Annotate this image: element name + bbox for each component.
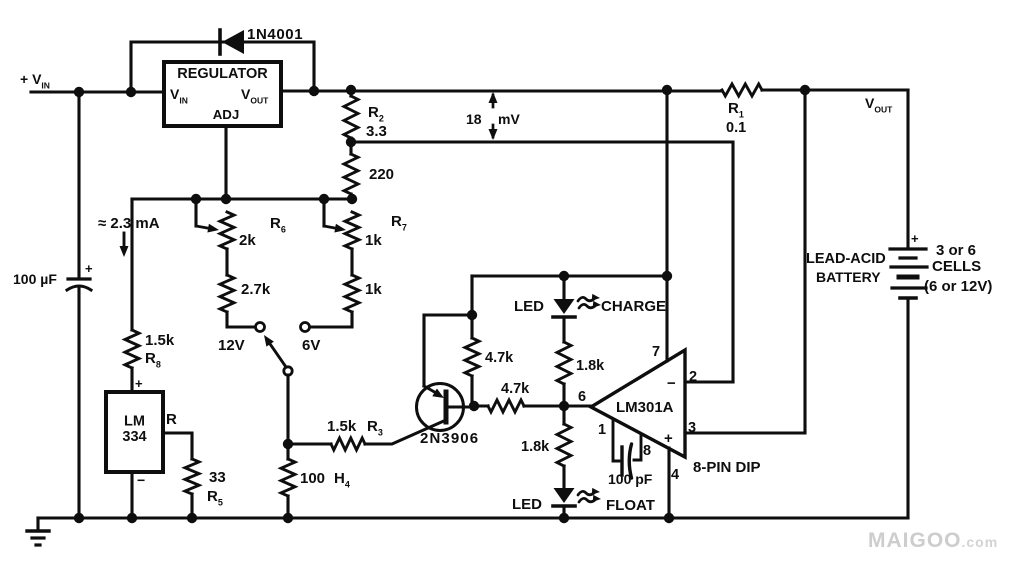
svg-text:MAIGOO.com: MAIGOO.com xyxy=(868,529,998,552)
svg-text:R3: R3 xyxy=(367,418,383,438)
svg-text:+ VIN: + VIN xyxy=(20,71,50,91)
svg-text:R6: R6 xyxy=(270,215,286,235)
svg-text:LM301A: LM301A xyxy=(616,399,674,416)
svg-text:1k: 1k xyxy=(365,281,382,298)
svg-text:1.8k: 1.8k xyxy=(576,358,605,374)
svg-text:1.8k: 1.8k xyxy=(521,439,550,455)
svg-text:100 pF: 100 pF xyxy=(608,471,653,487)
svg-text:LED: LED xyxy=(514,298,544,315)
svg-text:2k: 2k xyxy=(239,232,256,249)
svg-text:REGULATOR: REGULATOR xyxy=(177,66,268,82)
svg-text:4.7k: 4.7k xyxy=(501,381,530,397)
svg-text:CHARGE: CHARGE xyxy=(601,298,666,315)
svg-text:R1: R1 xyxy=(728,100,744,120)
svg-text:6: 6 xyxy=(578,389,586,405)
svg-text:+: + xyxy=(85,261,93,276)
svg-text:+: + xyxy=(664,430,673,447)
svg-text:12V: 12V xyxy=(218,337,245,354)
svg-text:mV: mV xyxy=(498,111,520,127)
svg-text:R7: R7 xyxy=(391,213,407,233)
svg-text:−: − xyxy=(137,472,145,488)
svg-text:R5: R5 xyxy=(207,488,223,508)
svg-text:LM: LM xyxy=(124,414,145,430)
svg-text:R8: R8 xyxy=(145,350,161,370)
svg-text:1N4001: 1N4001 xyxy=(247,26,303,43)
svg-text:1k: 1k xyxy=(365,232,382,249)
svg-text:2: 2 xyxy=(689,369,697,385)
svg-text:R2: R2 xyxy=(368,104,384,124)
svg-text:VOUT: VOUT xyxy=(865,95,893,115)
svg-text:100 µF: 100 µF xyxy=(13,271,57,287)
svg-text:100: 100 xyxy=(300,470,325,487)
svg-text:334: 334 xyxy=(122,429,146,445)
svg-text:H4: H4 xyxy=(334,470,350,490)
svg-text:1.5k: 1.5k xyxy=(145,332,175,349)
svg-text:FLOAT: FLOAT xyxy=(606,497,655,514)
svg-text:7: 7 xyxy=(652,344,660,360)
svg-text:6V: 6V xyxy=(302,337,320,354)
svg-text:8-PIN DIP: 8-PIN DIP xyxy=(693,459,761,476)
svg-text:33: 33 xyxy=(209,469,226,486)
svg-text:4.7k: 4.7k xyxy=(485,350,514,366)
svg-text:220: 220 xyxy=(369,166,394,183)
svg-text:CELLS: CELLS xyxy=(932,258,981,275)
svg-text:(6 or 12V): (6 or 12V) xyxy=(924,278,992,295)
svg-text:−: − xyxy=(667,375,676,392)
svg-text:BATTERY: BATTERY xyxy=(816,269,881,285)
svg-text:3 or 6: 3 or 6 xyxy=(936,242,976,259)
svg-text:ADJ: ADJ xyxy=(213,107,240,122)
svg-text:R: R xyxy=(166,411,177,428)
svg-text:4: 4 xyxy=(671,467,679,483)
svg-text:2.7k: 2.7k xyxy=(241,281,271,298)
svg-text:18: 18 xyxy=(466,111,482,127)
svg-text:0.1: 0.1 xyxy=(726,120,746,136)
svg-text:1.5k: 1.5k xyxy=(327,418,357,435)
svg-text:LEAD-ACID: LEAD-ACID xyxy=(806,251,886,267)
svg-text:8: 8 xyxy=(643,443,651,459)
svg-text:3.3: 3.3 xyxy=(366,123,387,140)
svg-text:2N3906: 2N3906 xyxy=(420,430,479,447)
svg-text:+: + xyxy=(911,231,919,246)
svg-text:LED: LED xyxy=(512,496,542,513)
svg-text:+: + xyxy=(135,376,143,391)
svg-text:≈ 2.3 mA: ≈ 2.3 mA xyxy=(98,215,160,232)
svg-text:1: 1 xyxy=(598,422,606,438)
